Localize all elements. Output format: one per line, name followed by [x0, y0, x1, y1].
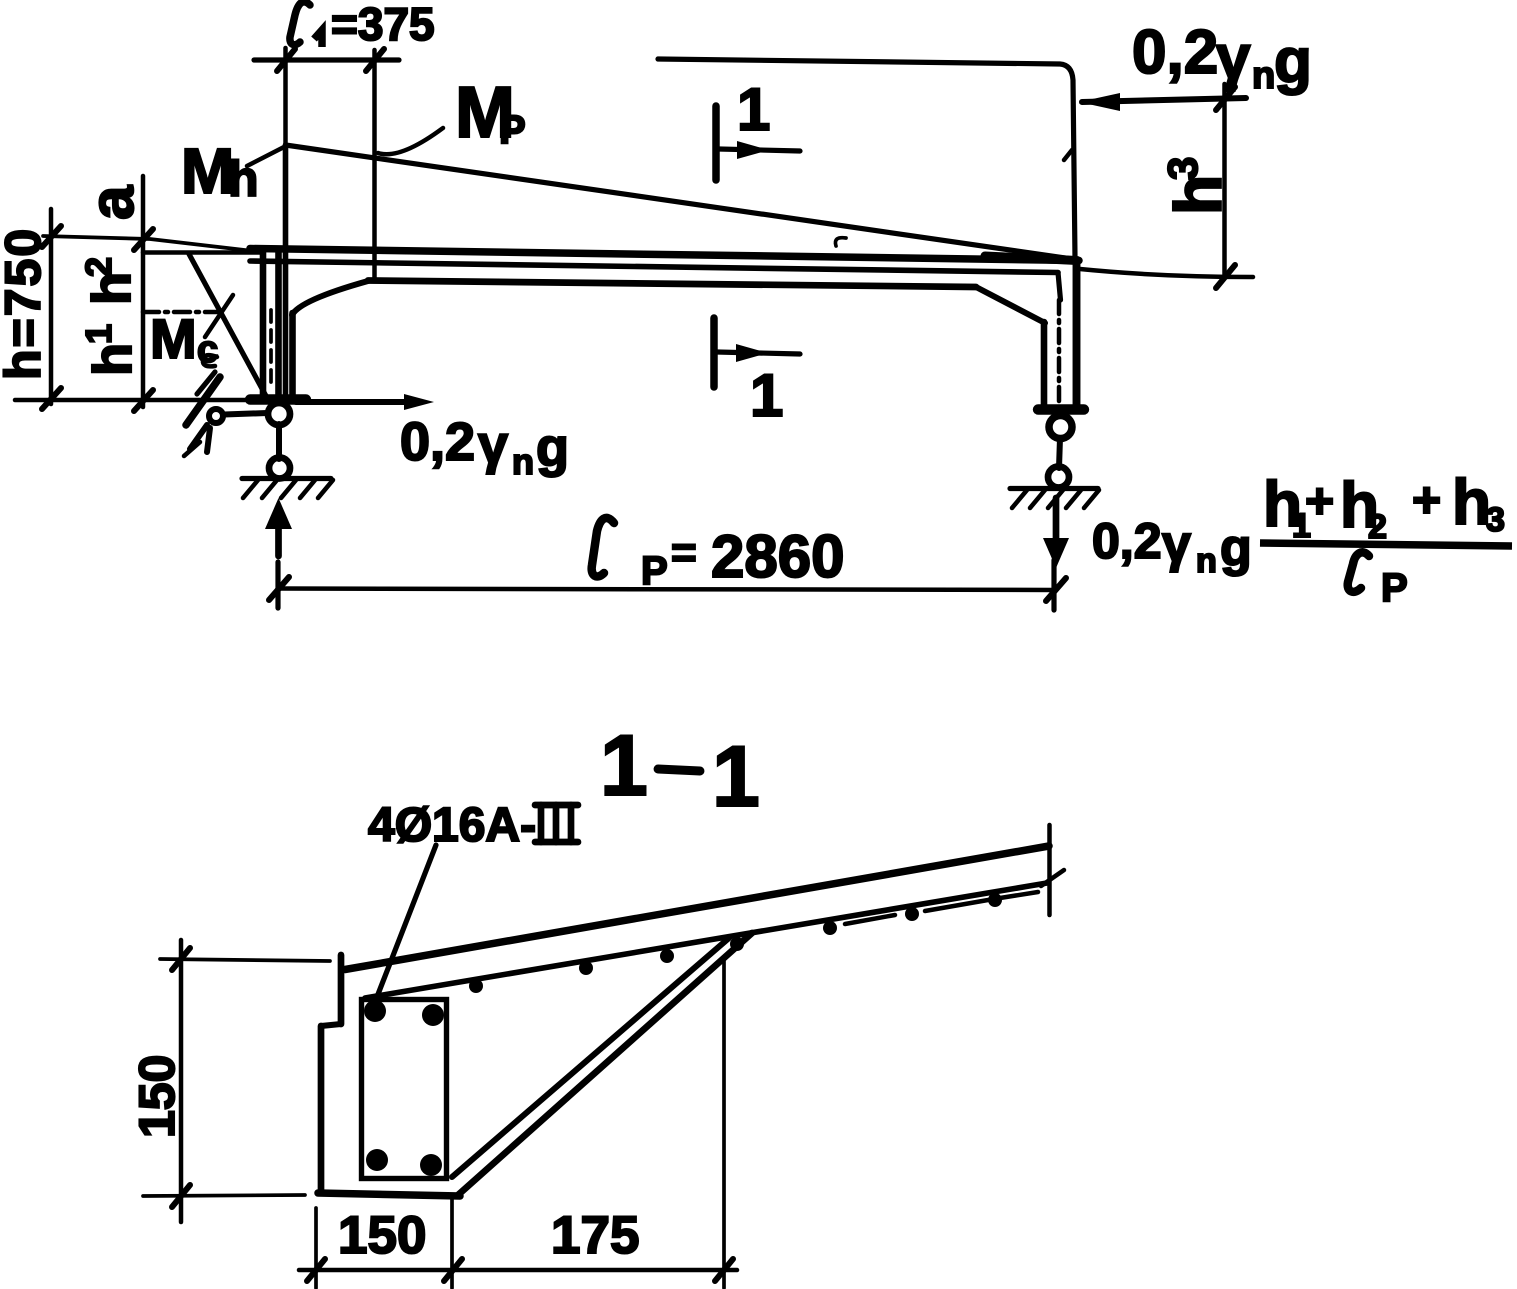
svg-text:1: 1 [600, 718, 648, 814]
svg-text:150: 150 [129, 1055, 185, 1138]
svg-text:1: 1 [712, 729, 760, 825]
svg-text:P: P [641, 549, 668, 593]
svg-text:γ: γ [478, 415, 508, 475]
svg-text:n: n [1196, 542, 1217, 580]
svg-text:150: 150 [338, 1206, 426, 1265]
svg-text:1: 1 [750, 362, 783, 429]
svg-text:a: a [78, 185, 147, 220]
svg-text:n: n [1252, 55, 1275, 97]
svg-text:1: 1 [737, 76, 770, 143]
svg-text:=: = [671, 528, 697, 577]
svg-text:3: 3 [1159, 157, 1206, 180]
svg-text:h: h [83, 343, 143, 376]
svg-text:2: 2 [1368, 508, 1387, 546]
svg-text:175: 175 [551, 1206, 639, 1265]
svg-text:2860: 2860 [711, 523, 844, 590]
svg-text:M: M [181, 135, 234, 207]
svg-text:γ: γ [1162, 515, 1191, 573]
svg-text:g: g [1220, 519, 1252, 577]
svg-text:+: + [1305, 473, 1334, 529]
svg-text:h: h [228, 151, 259, 207]
svg-text:=375: =375 [331, 0, 435, 50]
svg-text:1: 1 [78, 324, 119, 344]
svg-text:P: P [499, 108, 526, 152]
svg-text:γ: γ [1216, 23, 1251, 92]
svg-text:n: n [512, 441, 534, 482]
svg-text:h=750: h=750 [0, 227, 51, 380]
svg-text:0,2: 0,2 [400, 412, 475, 472]
svg-text:0,2: 0,2 [1092, 513, 1162, 569]
svg-text:3: 3 [1486, 501, 1505, 539]
svg-text:c: c [197, 329, 218, 371]
svg-text:g: g [1274, 27, 1312, 96]
svg-text:4Ø16A-: 4Ø16A- [368, 799, 536, 852]
svg-text:P: P [1381, 566, 1408, 610]
svg-text:+: + [1412, 472, 1441, 528]
svg-text:0,2: 0,2 [1132, 18, 1218, 87]
svg-text:2: 2 [78, 257, 119, 277]
svg-text:M: M [150, 307, 197, 370]
svg-text:g: g [536, 418, 569, 478]
